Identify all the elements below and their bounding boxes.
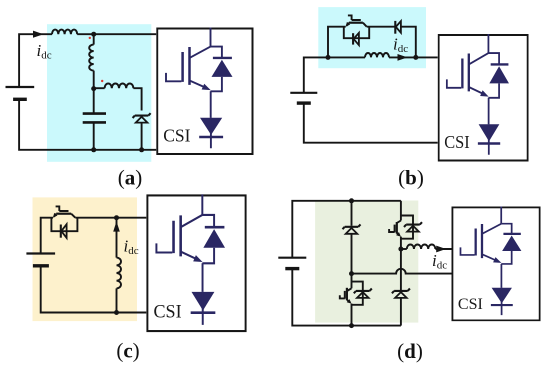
CSI IGBT emitter arrow (d) <box>493 257 501 263</box>
highlight region (b) cyan <box>318 7 426 68</box>
svg-text:(d): (d) <box>397 339 423 363</box>
CSI diode D1 cathode bar (d) <box>503 233 520 235</box>
antiparallel loop wire (b) <box>344 27 369 39</box>
wire rail to CSI box (b) <box>389 56 438 58</box>
node dot top (c) <box>114 215 119 220</box>
right leg bottom wire (d) <box>400 298 402 326</box>
series diode D4 cathode bar (b) <box>394 21 396 34</box>
wire L5 to bottom node (c) <box>116 288 118 312</box>
CSI top lead (c) <box>201 194 203 215</box>
CSI diode D1 triangle (b) <box>489 66 509 83</box>
battery V3 positive plate (c) <box>26 252 55 254</box>
CSI diode D1 triangle (c) <box>203 229 225 248</box>
CSI IGBT gate lead (c) <box>156 243 172 252</box>
IGBT Q5 emitter arrow (d) <box>396 232 401 237</box>
IGBT Q4 diode triangle (d) <box>357 292 369 298</box>
CSI lower diode D2 tail wire (b) <box>488 124 490 155</box>
wire N2 to inductor L3 (a) <box>94 87 105 89</box>
CSI wire emitter node down (a) <box>210 91 212 117</box>
top rail wire (d) <box>292 201 401 258</box>
wire D1 to emitter node (c) <box>202 248 214 264</box>
svg-text:(c): (c) <box>116 339 139 363</box>
CSI IGBT collector lead (c) <box>181 215 203 227</box>
inductor L3 horizontal (a) <box>105 83 134 88</box>
branch wire upper (c) <box>116 218 118 258</box>
IGBT Q4 loop wire (d) <box>352 282 363 305</box>
battery V4 positive plate (d) <box>278 257 306 259</box>
left leg into module (d) <box>351 274 353 289</box>
battery V3 negative plate (c) <box>33 264 49 267</box>
wire capacitor to bottom rail (a) <box>93 122 95 149</box>
CSI lower diode D2 triangle (c) <box>191 292 214 311</box>
CSI wire emitter node down (b) <box>488 98 490 124</box>
node dot bottom left leg (d) <box>349 323 354 328</box>
capacitor C1 top plate (a) <box>83 112 106 115</box>
series diode D4 triangle points left (b) <box>396 21 401 33</box>
CSI lower diode D2 tail wire (a) <box>210 118 212 149</box>
bottom rail wire (c) <box>41 266 147 313</box>
wire D4 to right riser down to rail (b) <box>401 27 416 58</box>
IGBT Q2 emitter arrow (b) <box>346 22 351 27</box>
CSI IGBT body bar (a) <box>188 47 191 85</box>
wire battery to main rail (b) <box>304 57 365 92</box>
CSI IGBT gate lead (b) <box>447 79 461 87</box>
CSI wire emitter node down (c) <box>202 263 204 292</box>
CSI IGBT emitter arrow (b) <box>480 90 488 96</box>
CSI IGBT emitter lead (d) <box>482 254 496 260</box>
CSI IGBT body bar (c) <box>179 215 182 256</box>
inductor L1 top rail (a) <box>52 30 77 35</box>
wire module to series diode (b) <box>367 26 396 28</box>
arrow idc direction (a) <box>33 31 44 38</box>
diode D5 cathode bar (c) <box>60 225 62 238</box>
IGBT Q5 body bar (d) <box>396 222 398 233</box>
highlight region (a) cyan <box>47 24 151 162</box>
CSI top lead (d) <box>500 207 502 224</box>
wire diode to bottom rail (a) <box>141 123 143 150</box>
wire to antiparallel diode (d) <box>501 224 511 234</box>
left leg middle wire (d) <box>351 234 353 274</box>
CSI box outline (b) <box>439 35 528 161</box>
left leg upper wire (d) <box>351 201 353 226</box>
node dot right (b) <box>413 55 418 60</box>
CSI lower diode D2 cathode bar (a) <box>199 136 223 138</box>
diode D1 cathode bar with zener ticks (a) <box>133 113 151 118</box>
CSI IGBT emitter arrow (a) <box>202 84 211 90</box>
CSI IGBT gate lead (a) <box>166 73 181 81</box>
wire to antiparallel diode (b) <box>488 53 499 64</box>
battery V4 negative plate (d) <box>285 267 299 270</box>
arrow idc direction up (c) <box>113 221 120 231</box>
wire to antiparallel diode (a) <box>211 47 222 58</box>
diode D1 triangle (a) <box>136 117 148 123</box>
CSI diode D1 cathode bar (a) <box>213 57 232 59</box>
wire battery top to top rail (a) <box>19 34 52 87</box>
IGBT Q5 diode triangle (d) <box>407 226 419 232</box>
bottom rail wire (b) <box>304 103 438 143</box>
IGBT Q4 emitter arrow (d) <box>347 299 352 304</box>
CSI IGBT gate bar (d) <box>474 229 477 256</box>
node dot bottom (c) <box>114 310 119 315</box>
IGBT Q4 gate bar (d) <box>344 291 346 299</box>
diode D7 cathode bar with ticks (d) <box>392 289 410 294</box>
svg-text:(a): (a) <box>118 166 143 190</box>
IGBT Q5 collector lead (d) <box>397 221 401 224</box>
CSI IGBT emitter arrow (c) <box>193 255 202 262</box>
IGBT Q3 gate lead (c) <box>56 206 60 211</box>
CSI IGBT collector lead (a) <box>190 47 211 58</box>
svg-text:CSI: CSI <box>458 296 483 313</box>
CSI IGBT gate lead (d) <box>460 247 474 255</box>
IGBT Q4 gate lead (d) <box>340 295 345 298</box>
CSI lower diode D2 triangle (b) <box>479 124 500 141</box>
wire L3 to diode branch (a) <box>133 88 141 110</box>
wire to antiparallel diode (c) <box>202 215 214 227</box>
CSI IGBT emitter lead (b) <box>469 87 483 94</box>
diode D5 triangle points left (c) <box>61 224 66 238</box>
wire battery to top rail (c) <box>41 218 53 254</box>
wire N1 down to inductor L2 (a) <box>93 34 95 44</box>
CSI diode D1 triangle (d) <box>502 235 521 250</box>
IGBT Q5 diode cathode bar with ticks (d) <box>404 222 422 227</box>
CSI IGBT emitter lead (c) <box>181 252 197 259</box>
IGBT Q2 emitter lead (b) <box>347 23 349 26</box>
wire top rail to CSI box (a) <box>77 33 156 35</box>
node dot left (b) <box>326 55 331 60</box>
upper bypass wire left riser (b) <box>328 27 346 58</box>
IGBT Q4 body bar (d) <box>346 288 348 300</box>
IGBT Q2 body bar (b) <box>349 22 363 24</box>
CSI IGBT collector lead (b) <box>469 53 489 64</box>
junction dot bottom diode (a) <box>139 147 144 152</box>
IGBT Q3 body bar (c) <box>56 213 71 215</box>
node dot top left leg (d) <box>349 198 354 203</box>
junction dot bottom capacitor (a) <box>91 147 96 152</box>
CSI top lead (b) <box>487 34 489 53</box>
battery V1 positive plate (a) <box>6 86 35 88</box>
CSI diode D1 cathode bar (b) <box>491 63 509 65</box>
diode D3 triangle points left (b) <box>354 33 359 45</box>
IGBT Q4 diode cathode bar with ticks (d) <box>354 289 372 294</box>
antiparallel loop wire (c) <box>51 218 77 232</box>
left leg bottom wire (d) <box>351 304 353 326</box>
wire node to inductor (d) <box>401 248 407 250</box>
CSI top lead (a) <box>210 28 212 47</box>
node dot middle left leg (d) <box>349 271 354 276</box>
CSI IGBT emitter lead (a) <box>190 81 205 88</box>
CSI lower diode D2 cathode bar (d) <box>491 304 513 306</box>
inductor L4 main rail (b) <box>365 53 389 57</box>
diode D6 triangle (d) <box>346 228 358 234</box>
svg-text:CSI: CSI <box>444 132 470 152</box>
wire N2 to capacitor (a) <box>93 89 95 114</box>
IGBT Q3 emitter arrow (c) <box>53 213 58 218</box>
CSI IGBT body bar (b) <box>468 54 471 92</box>
IGBT Q4 emitter lead (d) <box>347 300 350 303</box>
svg-text:CSI: CSI <box>163 126 190 146</box>
red polarity dot near L2 (a) <box>89 37 91 39</box>
wire L2 to node N2 (a) <box>93 71 95 89</box>
svg-text:CSI: CSI <box>154 301 182 321</box>
CSI IGBT body bar (d) <box>481 224 484 258</box>
inductor L5 vertical (c) <box>117 258 122 289</box>
IGBT Q2 gate lead (b) <box>348 15 352 20</box>
wire D1 to emitter node (d) <box>501 251 511 264</box>
CSI IGBT collector lead (d) <box>482 224 501 234</box>
diode D7 triangle (d) <box>395 292 407 298</box>
red polarity dot near L3 (a) <box>101 80 103 82</box>
IGBT Q5 emitter lead (d) <box>397 233 400 235</box>
highlight region (c) wheat <box>33 197 138 321</box>
CSI wire emitter node down (d) <box>500 264 502 288</box>
CSI lower diode D2 triangle (a) <box>200 118 222 135</box>
CSI lower diode D2 cathode bar (b) <box>478 142 500 144</box>
IGBT Q5 gate lead (d) <box>389 229 395 232</box>
highlight region (d) sage <box>315 201 418 323</box>
CSI diode D1 cathode bar (c) <box>205 226 225 228</box>
wire module to node (c) <box>75 217 146 219</box>
CSI IGBT gate bar (b) <box>461 59 464 89</box>
arrow idc direction (d) <box>436 246 446 253</box>
wire D1 to emitter node (b) <box>488 83 499 97</box>
CSI lower diode D2 tail wire (d) <box>501 288 503 315</box>
CSI lower diode D2 triangle (d) <box>492 288 512 303</box>
svg-text:(b): (b) <box>398 166 424 190</box>
node N2 junction dot (a) <box>91 86 96 91</box>
bottom rail wire (d) <box>292 269 401 326</box>
wire L6 to CSI box (d) <box>435 248 451 250</box>
IGBT Q2 collector lead (b) <box>363 23 367 27</box>
node dot right leg (d) <box>398 247 403 252</box>
CSI diode D1 triangle (a) <box>212 60 233 77</box>
arrow idc direction (b) <box>398 54 408 61</box>
battery V2 positive plate (b) <box>290 92 317 94</box>
right leg wire to node (d) <box>400 237 402 249</box>
IGBT Q2 gate bar (b) <box>352 19 361 21</box>
CSI box outline (c) <box>147 195 245 331</box>
diode D3 cathode bar (b) <box>352 33 354 44</box>
right leg wire through crossover (d) <box>400 249 402 290</box>
battery V2 negative plate (b) <box>297 101 311 104</box>
CSI box outline (d) <box>452 207 539 320</box>
inductor L2 vertical (a) <box>89 45 94 71</box>
bottom rail wire (a) <box>19 99 156 150</box>
CSI lower diode D2 cathode bar (c) <box>191 312 216 314</box>
CSI IGBT gate bar (a) <box>181 52 184 82</box>
IGBT Q5 loop wire (d) <box>401 216 413 239</box>
battery V1 negative plate (a) <box>13 98 27 101</box>
node N1 junction dot (a) <box>91 32 96 37</box>
inductor L6 (d) <box>407 244 436 249</box>
capacitor C1 bottom plate (a) <box>83 121 106 124</box>
IGBT Q3 gate bar (c) <box>59 210 68 212</box>
diode D6 cathode bar with ticks (d) <box>343 224 361 229</box>
CSI box outline (a) <box>157 29 252 155</box>
IGBT Q3 emitter lead (c) <box>54 214 56 217</box>
CSI lower diode D2 tail wire (c) <box>202 292 204 325</box>
CSI IGBT gate bar (c) <box>172 221 175 253</box>
IGBT Q3 collector lead (c) <box>71 214 75 218</box>
wire D1 to emitter node (a) <box>211 77 222 91</box>
right leg top wire (d) <box>400 201 402 221</box>
IGBT Q4 collector lead (d) <box>347 288 352 291</box>
return wire with hop to CSI box (d) <box>352 269 452 274</box>
IGBT Q5 gate bar (d) <box>394 225 396 233</box>
